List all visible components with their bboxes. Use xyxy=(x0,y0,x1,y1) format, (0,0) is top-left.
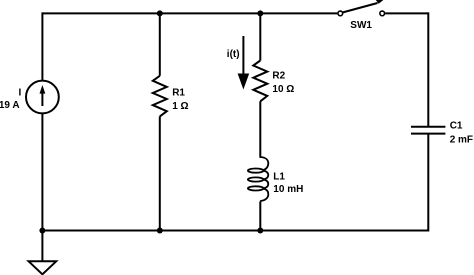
svg-text:C1: C1 xyxy=(450,121,463,132)
wire bottom rail xyxy=(42,230,428,232)
svg-text:R1: R1 xyxy=(172,88,185,99)
ground symbol xyxy=(29,261,57,274)
wire left rail lower xyxy=(41,113,43,230)
wire between R2 and L1 xyxy=(259,101,261,158)
junction dot bottom R1 xyxy=(157,228,163,234)
wire left rail upper xyxy=(41,12,43,81)
switch SW1 left contact xyxy=(338,11,343,16)
switch SW1 blade xyxy=(343,3,378,12)
svg-text:10 Ω: 10 Ω xyxy=(272,84,294,95)
wire top right segment xyxy=(385,12,428,14)
svg-text:SW1: SW1 xyxy=(350,20,372,31)
wire top left rail xyxy=(42,12,337,14)
switch SW1 blade arrowhead xyxy=(374,0,386,4)
wire R2 branch upper xyxy=(259,13,261,60)
wire R1 branch upper xyxy=(159,13,161,75)
capacitor C1 top plate xyxy=(411,126,445,128)
resistor R1 xyxy=(153,76,167,117)
junction dot bottom R2 xyxy=(257,228,263,234)
wire L1 branch lower xyxy=(259,201,261,230)
svg-text:I: I xyxy=(19,87,22,98)
junction dot top R2 xyxy=(257,10,263,16)
wire ground stem xyxy=(41,231,43,262)
svg-text:2 mF: 2 mF xyxy=(450,135,473,146)
current source I 19A xyxy=(26,81,59,114)
svg-text:1 Ω: 1 Ω xyxy=(172,101,188,112)
wire R1 branch lower xyxy=(159,116,161,230)
inductor L1 coil xyxy=(248,157,268,201)
junction dot top R1 xyxy=(157,10,163,16)
svg-text:10 mH: 10 mH xyxy=(273,184,303,195)
current arrow i(t) xyxy=(242,36,244,76)
svg-text:R2: R2 xyxy=(272,71,285,82)
svg-text:19 A: 19 A xyxy=(0,100,20,111)
junction dot bottom left xyxy=(39,228,45,234)
capacitor C1 bottom plate xyxy=(411,133,445,135)
wire right rail lower xyxy=(427,134,429,232)
resistor R2 xyxy=(253,61,267,102)
svg-text:L1: L1 xyxy=(273,172,285,183)
svg-text:i(t): i(t) xyxy=(227,49,240,60)
switch SW1 right contact xyxy=(380,11,385,16)
wire right rail upper xyxy=(427,12,429,126)
